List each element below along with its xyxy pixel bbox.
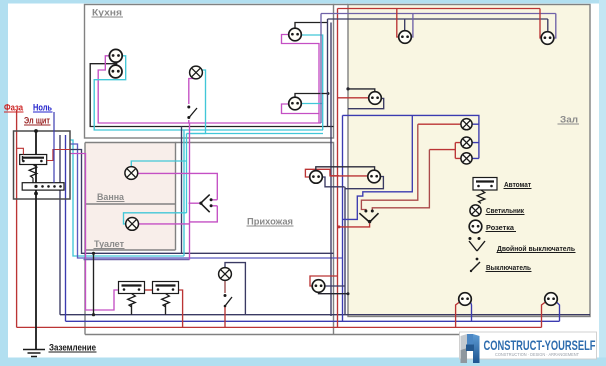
svg-text:Эл щит: Эл щит xyxy=(24,116,51,126)
svg-text:Ноль: Ноль xyxy=(33,103,52,113)
svg-text:CONSTRUCTION · DESIGN · ARRANG: CONSTRUCTION · DESIGN · ARRANGEMENT xyxy=(495,352,579,358)
svg-text:Выключатель: Выключатель xyxy=(486,263,531,272)
svg-text:Фаза: Фаза xyxy=(4,103,23,113)
svg-text:CONSTRUCT-YOURSELF: CONSTRUCT-YOURSELF xyxy=(484,337,596,353)
svg-text:Светильник: Светильник xyxy=(486,206,524,215)
svg-text:Заземление: Заземление xyxy=(49,343,96,353)
svg-text:Розетка: Розетка xyxy=(486,223,515,232)
svg-text:Двойной выключатель: Двойной выключатель xyxy=(497,244,575,253)
svg-text:Автомат: Автомат xyxy=(504,180,531,189)
